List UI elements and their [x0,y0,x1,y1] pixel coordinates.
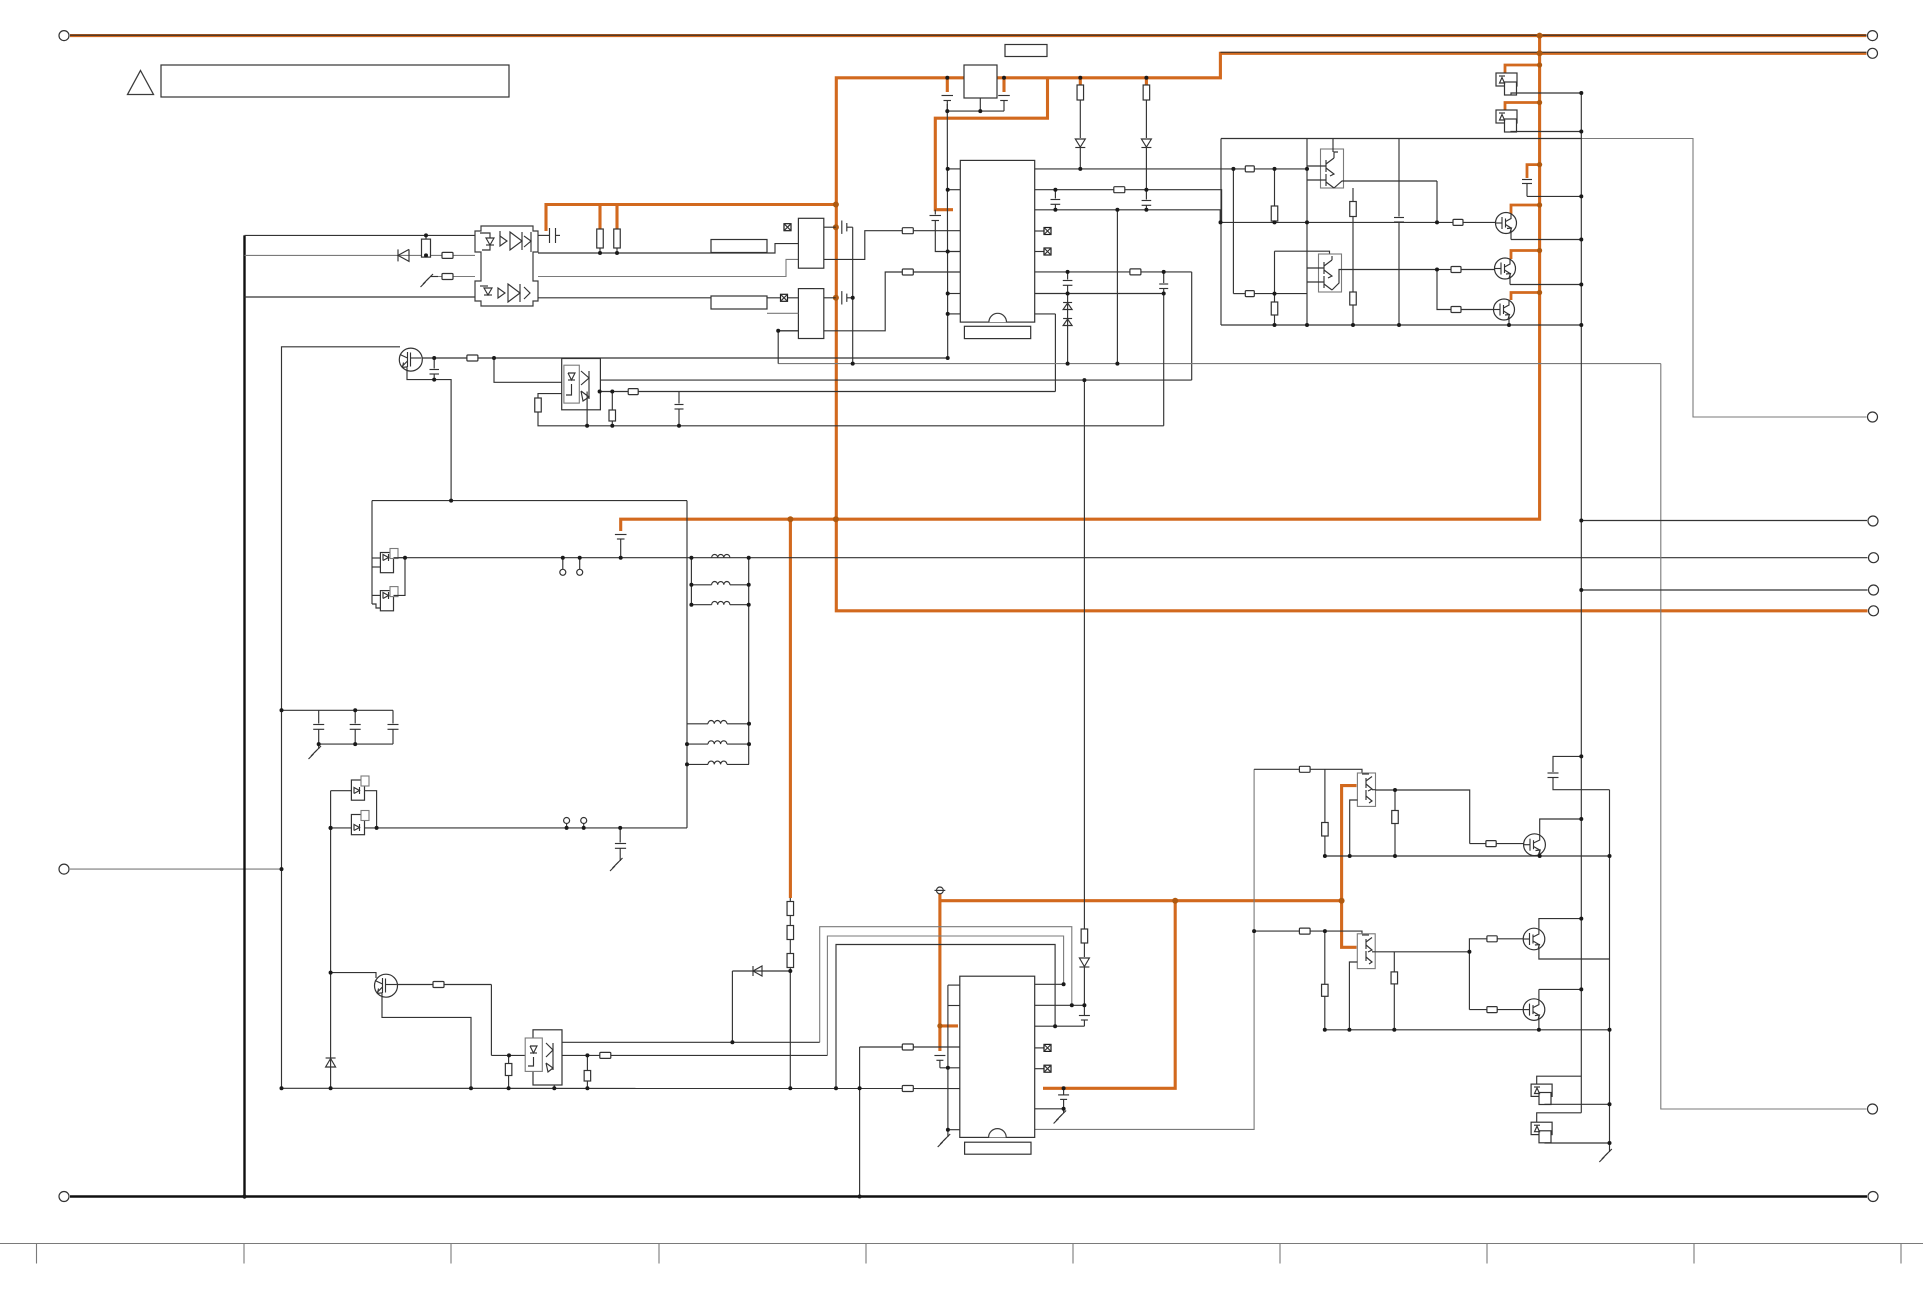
mosfet Q6 [351,815,364,835]
ruler tick 6 [1072,1244,1074,1264]
wire opto3 out to bus [555,1041,820,1043]
wire IC2 rail pin y1005 [948,1005,960,1007]
resistor R Q1 collector [467,355,478,361]
resistor R orange stub A [597,229,604,248]
wire top frame y138 and vertical x1693 to terminal y417 [1221,139,1867,418]
transformer T1 left rail [690,558,692,605]
terminal circle right y1109 [1868,1104,1878,1114]
no-connect mark buffer U2 input [784,224,791,231]
wire IC1 pin stub y189 [948,189,961,191]
wire nested bus middle [827,936,1063,1055]
wire y425 [538,412,1164,426]
terminal circle right y558 [1869,553,1879,563]
ground IC2 right [1054,1111,1067,1124]
capacitor C chain x1055 [1051,190,1061,210]
opto-coupler PC1 dual package [475,226,538,306]
resistor R vertical x1353 lower [1352,222,1354,292]
wire nested bus outer [820,927,1072,1043]
wire center rail x947 upper [946,104,948,358]
regulator U4 box [964,65,997,98]
wire x1581 to opto6 [1537,1076,1582,1084]
resistor R vertical x1324 lower2 [1322,984,1329,996]
wire chain A [1079,100,1081,138]
resistor chain x790 R2 [787,926,794,940]
terminal circle left mid [59,864,69,874]
wire opto2 lower-left pin [538,394,562,398]
transistor Q1 [399,348,422,371]
wire regulator ground pin [979,98,981,111]
capacitor C at x679 [675,392,684,426]
wire x859 ground drop [859,1047,861,1197]
resistor R IGBT3 base [1451,307,1461,313]
wire y380 [600,379,1191,381]
resistor R horizontal at y255 [442,252,453,258]
resistor R x587 [586,1055,588,1070]
terminal circle right y417 [1868,412,1878,422]
wire orange vertical to resistor chain [789,519,792,898]
ruler tick 5 [865,1244,867,1264]
capacitor C IC2 right ground [1058,1088,1069,1113]
resistor R vertical x1394 [1393,952,1395,972]
zener diodes stack x1067 [1063,303,1072,326]
wire bottom thick bus [70,1195,1867,1197]
mosfet Q5 [351,780,364,800]
capacitor C zener chain bottom [1079,1005,1090,1026]
wire IC2 left rail [947,985,949,1130]
capacitor bank C x318 C x355 C x393 [282,709,394,711]
IC U5 lower control IC [960,976,1035,1137]
resistor R IGBT2 base [1451,267,1461,273]
wire resistor chain vertical [789,898,791,902]
wire opto1 input 4 [245,296,476,298]
resistor R y1055 [600,1052,611,1058]
ground capacitor bank [309,744,322,759]
wire x1437 to IGBT3 base [1437,270,1451,310]
zener opto box PC6 [1531,1084,1552,1096]
wire orange stub cap A [946,78,949,92]
wire x778 drop [777,331,779,364]
wire orange stub resistor B [615,205,618,230]
wire orange lower net from antenna [938,894,941,1051]
wire orange elbow top opto2 [1505,103,1540,111]
opto-coupler PC3 [533,1030,562,1085]
resistor R darlington1 base [1245,166,1254,172]
resistor R vertical x612 [611,392,613,411]
zener opto box PC7 [1531,1122,1552,1134]
wire thick left vertical bus [243,235,245,1196]
capacitor C snubber top right [1522,180,1581,197]
wire IC1 pin stub y313 [948,313,961,315]
opto1 internal LED/transistor upper [480,231,531,252]
resistor R y768 [1299,766,1310,772]
wire y769 to opto5 [1254,769,1362,774]
resistor R zener chain x1084 [1083,380,1085,929]
wire opto1 out2 to buffer1 [538,244,798,253]
resistor R orange stub B [614,229,621,248]
wire right block frame top [1221,138,1581,140]
ruler baseline [0,1243,1923,1245]
resistor R vertical x1324 upper block2 [1324,769,1326,822]
wire drive bus y222 [1221,221,1453,223]
ground for opto1 input3 [421,274,439,287]
ruler tick 4 [658,1244,660,1264]
transistor pair Q11 darlington2 [1319,254,1342,292]
resistor R chain B [1143,85,1150,100]
wire Q2 collector step down [490,985,492,1056]
warning triangle [128,71,154,95]
mosfet Q3 [380,553,393,573]
ground IC2 rail [938,1130,951,1147]
resistor R y931 [1299,928,1310,934]
transformer T2 winding rows [687,721,749,765]
terminal circle top-left [59,31,69,41]
resistor R y1088 feed [902,1086,913,1092]
wire x1437 drop to base bus [1436,181,1438,222]
wire opto1 input 3 from ground [438,276,475,278]
resistor R vertical x1274 upper [1274,169,1276,206]
opto1 internal LED/transistor lower [480,284,530,302]
wire orange elbow top opto1 [1505,65,1540,73]
wire secondary output y827 [331,827,687,829]
transformer T1 winding rows [691,554,748,604]
wire opto1 out3 to buffer1 gray [538,259,798,276]
wire vertical x330 [330,791,332,1089]
wire cap rail x852 [852,227,854,363]
buffer U2 box [798,218,823,268]
transistor Q15 IGBT [1524,834,1546,856]
IC U1 bottom notch [989,313,1007,322]
terminal circle bottom-left [59,1192,69,1202]
resistor R IGBT1 base [1453,219,1463,225]
wire vertical x1660 to right terminal y1109 [1661,364,1867,1109]
wire IGBT5 emitter [1539,950,1610,960]
label box IC U1 [964,326,1030,338]
wire orange stub chain B [1145,78,1148,85]
wire diode branch drop x732 [731,971,733,1042]
capacitor C buffer U3 output [842,291,853,304]
resistor R x508 [508,1055,510,1063]
wire opto1 input 2 [245,254,476,256]
resistor R Q2 collector [433,982,444,988]
resistor R on y189 [1114,187,1125,193]
wire buffer U3 output to orange [824,297,836,299]
wire right rail x1609 [1609,790,1611,1143]
label box part number 1 [711,240,767,253]
terminal circle right y521 [1868,516,1878,526]
label box part number 2 [711,296,767,309]
node junction dots [242,76,1611,1199]
capacitor C orange to TP line [615,535,627,558]
capacitor C x1553 [1548,756,1610,789]
no-connect mark IC1 right A [1035,230,1044,232]
wire opto5 out y951 [1375,952,1469,1010]
wire IC1 pin stub y293 [948,293,961,295]
wire vertical bus x281 [282,347,401,1089]
zener D chain x1084 [1079,958,1089,1005]
wire buffer U2 output to orange [824,226,836,228]
wire IC2 right pin y984 [1035,983,1064,985]
wire IC1 pin y293 [1035,293,1164,295]
wire opto1 input 1 [245,234,476,236]
node dots right block [1219,91,1584,327]
wire IC1 pin y189 step down [1035,190,1222,223]
test point TP2 [579,558,581,570]
wire long bottom horizontal to IC2 [282,1087,961,1089]
resistor chain x790 R3 [787,954,794,968]
wire opto1 out4 to buffer2 [538,297,798,299]
wire buffer U3 input lower [778,330,798,332]
wire IGBT4 collector [1540,819,1582,834]
wire to opto2 input [494,358,562,382]
wire orange elbow IGBT2 [1511,251,1540,260]
no-connect mark buffer U3 input [781,294,788,301]
resistor R inline y391 [628,389,638,395]
IC U5 bottom notch [989,1129,1007,1138]
resistor R vertical at x426 [422,239,431,257]
wire IGBT6 collector [1539,988,1581,990]
wire IGBT5 collector [1539,919,1581,929]
wire orange stub chain A [1079,78,1082,85]
wire test point line y557 to right terminal [394,557,1868,559]
wire opto2 lower pin drop x587 [586,392,588,426]
wire IC1 pin stub y168 [948,168,961,170]
wire orange right drop to IC2 pin [1043,901,1175,1089]
resistor R horizontal at y276 [442,274,453,280]
wire Q2 base [331,973,376,978]
terminal circle right y590 [1869,585,1879,595]
resistor R y1047 feed [902,1044,913,1050]
wire orange stub resistor A [598,205,601,230]
wire IC2 rail pin y1129 [948,1129,960,1131]
wire IC2 rail pin y985 [948,984,960,986]
wire orange elbow to IC1 pin [935,78,1047,210]
wire IC1 pin y168 to right block [1035,168,1307,170]
transistor pair Q10 darlington1 [1321,149,1344,188]
capacitor C orange rail bottom [934,1056,959,1068]
wire orange stub cap B [1002,78,1005,92]
transistor Q14 IGBT [1494,299,1515,320]
test point TP1 [562,558,564,570]
wire IC1 pin y209 step down [1035,210,1221,223]
capacitor C chain x1067 [1063,272,1073,364]
wire from left terminal to vertical bus [70,868,282,870]
wire buffer U3 input gray [767,312,798,314]
wire bottom rail lower block y1029 [1325,1029,1610,1031]
wire y500 [372,500,687,502]
wire darlington2 top frame [1275,251,1330,255]
wire opto3 bottom pin [553,1085,555,1088]
zener opto box top2 [1496,110,1517,123]
wire darlington2 base [1233,293,1245,295]
wire orange main vertical to horizontal y519 [621,34,1540,531]
antenna symbol top of orange [935,887,946,894]
label box IC U5 [965,1142,1031,1154]
ground lower right rail [1599,1143,1612,1162]
ruler tick 1 [36,1244,38,1264]
wire opto4 out y789 [1376,790,1470,844]
resistor R IGBT6 base [1487,1007,1497,1013]
wire Q1 emitter path [407,367,451,501]
wire orange drop to lower right block [1342,786,1357,948]
transformer T right rail [748,558,750,765]
buffer U3 box [798,289,823,339]
warning note box [161,65,509,97]
wire orange lower horizontal [940,899,1342,902]
transistor Q13 IGBT [1495,258,1516,279]
wire opto5 bottom pin [1349,962,1357,1030]
transistor Q16 IGBT [1523,928,1545,950]
node orange junctions [1537,33,1543,39]
resistor chain x790 R1 [787,902,794,916]
ruler tick 3 [450,1244,452,1264]
transformer T2 left rail [686,501,688,828]
wire Q2 emitter path [382,993,471,1088]
wire main vertical x1581 [1580,93,1582,1113]
wire IC2 right pin y1026 [1035,1025,1085,1027]
wire vertical x1117 [1116,210,1118,364]
no-connect mark IC2 right A [1035,1047,1044,1049]
diode D branch [753,966,762,976]
wire vertical x1055 from IC1 [1054,314,1056,392]
capacitor C regulator right [998,96,1010,112]
test point TP4 [583,823,585,828]
wire vertical x1163 with cap gap [1163,272,1165,283]
wire orange bus top line [70,34,1867,37]
no-connect mark IC1 right B [1035,251,1044,253]
wire orange elbow cap right block [1527,165,1540,178]
transistor Q12 IGBT [1496,213,1517,234]
opto-coupler PC2 [562,359,601,410]
wire right block frame bottom [1221,324,1581,326]
mosfet Q4 [380,591,393,611]
capacitor C x620 to ground [610,828,626,871]
capacitor at opto1 output (orange feed) [538,228,560,243]
wire x1581 to terminal y521 [1581,520,1867,522]
wire rail x1324 lower block [1324,931,1326,1030]
zener D x330 [326,1058,336,1067]
wire orange elbow IGBT1 [1511,205,1540,214]
wire chain B [1145,100,1147,138]
wire IGBT1 emitter [1511,239,1581,241]
wire diode branch y971 [732,970,790,972]
resistor R chain A [1077,85,1084,100]
wire y363 long gray [778,363,1661,365]
resistor R IGBT5 base [1487,936,1497,942]
wire IC2 right pin y1108 [1035,1108,1064,1110]
wire y111 regulator bottom [947,110,1004,112]
opto-coupler PC4 upper [1357,773,1375,806]
wire vertical x1191 [1191,272,1193,380]
capacitor C at Q1 [430,358,440,380]
ruler tick 8 [1486,1244,1488,1264]
resistor R in B2 jog wire [902,269,913,275]
wire IC1 pin y271 chain [1035,271,1192,273]
test point TP3 [566,823,568,828]
wire y931 to opto6 [1254,931,1362,935]
resistor R on y271 [1130,269,1141,275]
wire mosfet pair2 right rail [365,791,377,828]
capacitor C buffer U2 output [842,221,853,234]
no-connect mark IC2 right B [1035,1068,1044,1070]
wire y1047 to IC2 [860,1046,960,1048]
wire rail y856 [1325,855,1610,857]
wire IC2 pin to x1254 riser [1035,769,1254,1129]
capacitor C under orange elbow [930,210,961,252]
transistor Q2 [375,974,398,997]
wire y391 [600,391,1055,393]
wire opto3 out2 to bus [491,1054,827,1056]
resistor R vertical x1274 lower [1274,251,1276,302]
terminal circle right y611 [1869,606,1879,616]
terminal circle top-right 2 [1868,48,1878,58]
wire B2 lower output jog to IC1 [778,330,798,332]
capacitor C chain x1163 [1159,284,1168,289]
transistor Q17 IGBT [1523,999,1545,1021]
wire mosfet pair1 left rail [371,501,373,604]
wire x1581 to opto7 [1537,1113,1582,1122]
wire rail x1307 [1306,139,1308,326]
diode D chain A [1075,139,1085,148]
terminal circle bottom-right [1868,1192,1878,1202]
label box top [1005,45,1047,57]
ruler tick 7 [1279,1244,1281,1264]
capacitor C regulator left [942,96,954,112]
wire orange branch y204 to opto cap [546,205,836,232]
diode D at y255 [398,249,409,261]
node orange elbow dots [1537,62,1542,295]
opto-coupler PC5 lower [1357,934,1375,969]
wire x1581 to terminal y590 [1581,589,1867,591]
wire collector line y358 [421,357,948,359]
wire B1 lower output jog to IC1 [824,231,960,260]
capacitor C chain x1146 [1142,190,1152,210]
wire orange bus second line with step to right terminal [836,53,1867,611]
wire nested bus inner [836,945,1055,1089]
resistor R vertical x1353 upper [1352,188,1354,202]
wire orange elbow IGBT3 [1511,293,1540,301]
resistor R IGBT4 base [1486,841,1496,847]
ruler tick 9 [1693,1244,1695,1264]
ruler tick 10 [1900,1244,1902,1264]
ruler tick 2 [243,1244,245,1264]
capacitor C rail x1399 [1398,139,1400,217]
resistor R opto2 drop [535,398,542,412]
wire right block frame left [1220,139,1222,326]
wire opto4 bottom pin [1350,800,1358,856]
IC U1 main control IC [960,160,1034,322]
diode D chain B [1141,139,1151,148]
wire IC2 right pin y1005 [1035,1004,1085,1006]
wire IGBT2 emitter [1510,284,1581,286]
wire zener chain from IC1 y313 [1035,313,1056,315]
wire rail x1233 [1232,169,1234,294]
terminal circle top-right 1 [1868,31,1878,41]
resistor R in B1 jog wire [902,228,913,234]
wire mosfet pair1 mid rail [394,558,406,596]
resistor R vertical x1395 [1394,790,1396,811]
wire orange stub IC2 left pin [940,1024,958,1027]
zener opto box top1 [1496,73,1517,86]
